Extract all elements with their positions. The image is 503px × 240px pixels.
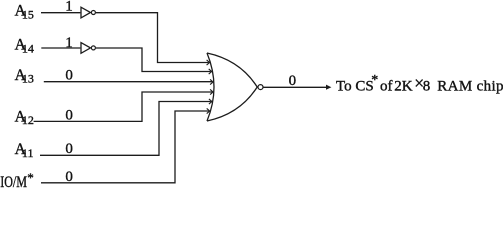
svg-text:0: 0 xyxy=(65,141,73,157)
svg-text:0: 0 xyxy=(65,108,73,124)
svg-text:14: 14 xyxy=(22,41,34,55)
svg-text:13: 13 xyxy=(22,72,34,86)
svg-text:IO/M: IO/M xyxy=(0,174,27,188)
svg-text:*: * xyxy=(371,73,378,88)
svg-text:15: 15 xyxy=(22,7,34,21)
svg-text:2K: 2K xyxy=(394,79,413,95)
svg-text:1: 1 xyxy=(65,35,73,51)
svg-text:11: 11 xyxy=(22,146,34,160)
svg-text:12: 12 xyxy=(22,113,34,127)
svg-text:of: of xyxy=(380,79,393,95)
svg-text:0: 0 xyxy=(289,73,297,89)
svg-text:1: 1 xyxy=(65,0,73,15)
svg-text:0: 0 xyxy=(65,169,73,185)
svg-text:RAM chip: RAM chip xyxy=(437,79,503,95)
svg-text:To CS: To CS xyxy=(336,79,374,95)
svg-text:*: * xyxy=(27,170,34,185)
svg-text:0: 0 xyxy=(65,68,73,84)
svg-text:8: 8 xyxy=(423,79,431,95)
